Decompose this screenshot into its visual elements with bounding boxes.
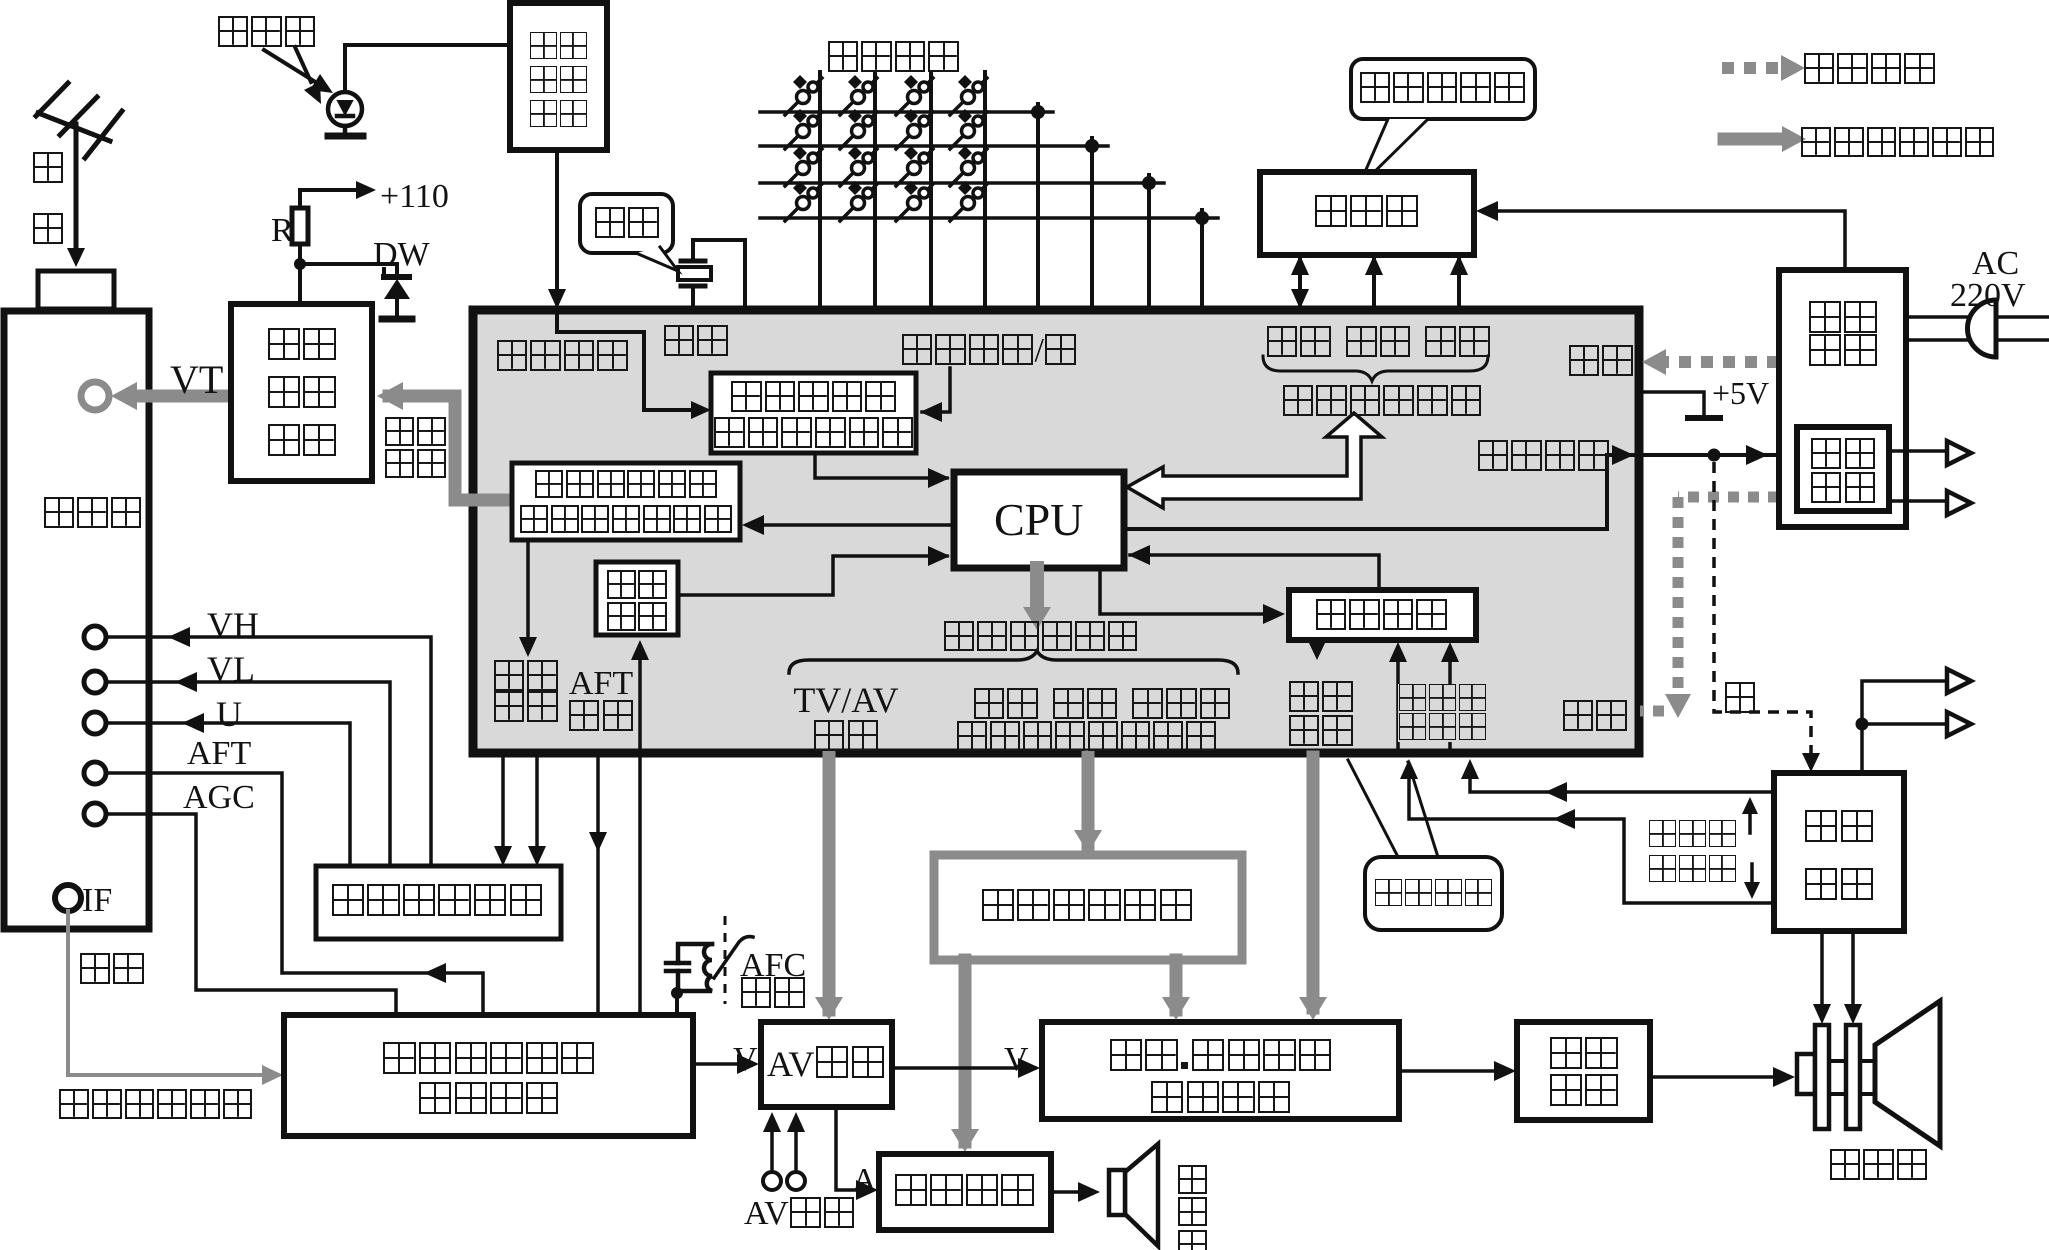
wire keypad label into decode box bbox=[922, 368, 950, 412]
label AV interface bbox=[767, 1046, 886, 1082]
wire video out V bbox=[693, 1062, 752, 1066]
keypad row wire 3 bbox=[760, 181, 1164, 185]
arrow into speaker bbox=[1078, 1182, 1100, 1202]
sync signal box bbox=[596, 562, 678, 635]
label +5V bbox=[1712, 377, 1769, 409]
wire AFT return bbox=[106, 773, 483, 1015]
arrow into AV interface bbox=[737, 1054, 759, 1074]
node dot R/DW bbox=[294, 258, 306, 270]
arrow into tuning output box bbox=[742, 515, 764, 535]
arrow band line 2 bbox=[528, 846, 546, 866]
arrow on VH wire bbox=[168, 627, 190, 647]
label output control commands bbox=[943, 621, 1139, 654]
char signal gray line bbox=[1307, 757, 1320, 1008]
VT gray wire bbox=[132, 390, 231, 403]
VT gray terminal circle bbox=[81, 382, 109, 410]
label tuning output box bbox=[512, 470, 740, 540]
scan box top wire 2 bbox=[1862, 722, 1946, 726]
arrow down into U1 bbox=[1291, 289, 1309, 309]
display circuit box bbox=[1517, 1022, 1650, 1120]
arrow deflection 2 bbox=[1844, 1004, 1862, 1024]
line/field scan box bbox=[1774, 773, 1904, 931]
IF gray arrowhead bbox=[262, 1065, 283, 1085]
tuner terminal IF bbox=[55, 885, 81, 911]
label microprocessor callout bbox=[1365, 879, 1502, 909]
wire V pulse into char position bbox=[1396, 648, 1400, 748]
wire audio to speaker bbox=[1051, 1190, 1094, 1194]
gray line control IF to chroma bbox=[1170, 960, 1183, 1010]
arrow into char position box bbox=[1263, 604, 1285, 624]
wire band switch arrow bbox=[526, 540, 530, 651]
microprocessor callout bubble bbox=[1348, 760, 1502, 930]
label reset bbox=[1561, 700, 1628, 734]
label speaker bbox=[1178, 1161, 1207, 1250]
legend solid gray arrow bbox=[1724, 133, 1782, 146]
tuner terminal U bbox=[84, 712, 106, 734]
tuner terminal VL bbox=[84, 671, 106, 693]
V pulse wire from scan bbox=[1470, 766, 1774, 792]
tuner interface circuit box bbox=[231, 304, 372, 481]
open arrow out 2 bbox=[1947, 491, 1971, 515]
infrared arrows bbox=[264, 47, 333, 104]
arrow H pulse bbox=[1441, 642, 1459, 662]
arrow into display circuit bbox=[1494, 1061, 1516, 1081]
wire chip select bbox=[1372, 260, 1376, 309]
AV input terminal 2 bbox=[787, 1172, 805, 1190]
arrow char signal down bbox=[1308, 641, 1326, 660]
wire AV to chroma V bbox=[892, 1066, 1035, 1070]
gray line to control interface bbox=[1082, 757, 1095, 844]
arrow dashed into scan box bbox=[1802, 753, 1820, 772]
wire H pulse into char position bbox=[1448, 648, 1452, 748]
arrow into audio out box bbox=[856, 1180, 878, 1200]
label data chipselect clock bbox=[1265, 326, 1491, 360]
AFC wire to video IF bbox=[675, 993, 679, 1015]
band select switch box bbox=[316, 866, 561, 939]
label control interface box bbox=[980, 889, 1194, 925]
keypad switch r4c3 bbox=[896, 181, 933, 221]
wire remote input to key/remote decode box bbox=[557, 316, 703, 410]
keypad row wire 1 bbox=[760, 110, 1053, 114]
arrow deflection 1 bbox=[1813, 1004, 1831, 1024]
wire chroma to display circuit bbox=[1399, 1069, 1510, 1073]
label +110 bbox=[380, 180, 449, 214]
arrow H pulse left bbox=[1553, 809, 1575, 829]
H pulse wire from scan bbox=[1409, 766, 1774, 903]
wire char signal arrow bbox=[1315, 640, 1319, 652]
arrowhead H indicator bbox=[1744, 882, 1760, 899]
label V mid bbox=[1004, 1043, 1029, 1077]
arrow band switch label bbox=[519, 637, 537, 657]
supply +5V dotted gray wire bbox=[1660, 356, 1779, 368]
AFC coil bbox=[677, 944, 712, 991]
arrow H pulse up into U1 bbox=[1400, 759, 1418, 779]
legend dotted arrowhead bbox=[1781, 55, 1805, 81]
label 220V bbox=[1950, 279, 2026, 313]
fat white arrow CPU to data access control bbox=[1127, 413, 1382, 508]
tuning/band output box bbox=[512, 463, 740, 540]
AC input wires bbox=[1906, 317, 2049, 340]
label or bbox=[1723, 682, 1757, 716]
keypad switch r4c1 bbox=[785, 181, 822, 221]
keypad switch r1c4 bbox=[950, 75, 987, 115]
standby output wire 1 bbox=[1889, 449, 1946, 453]
wire U1 ground stub bbox=[1639, 392, 1704, 416]
wire audio A bbox=[836, 1107, 872, 1190]
arrow antenna to feed box bbox=[67, 248, 85, 267]
open arrow scan out 2 bbox=[1947, 712, 1971, 736]
arrow V pulse bbox=[1389, 642, 1407, 662]
arrow into CRT bbox=[1773, 1067, 1795, 1087]
keypad column wire 1 bbox=[818, 72, 822, 309]
ground under DW bbox=[382, 316, 412, 323]
label display circuit bbox=[1517, 1037, 1650, 1111]
open arrow out 1 bbox=[1947, 441, 1971, 465]
dashed or-wire to scan bbox=[1714, 462, 1811, 764]
label memory bbox=[1313, 195, 1420, 231]
label AV input bbox=[744, 1197, 856, 1231]
CPU box bbox=[954, 472, 1124, 568]
arrow into CPU left lower bbox=[928, 546, 950, 566]
arrow on AFT wire bbox=[424, 963, 446, 983]
keypad column wire 2 bbox=[873, 72, 877, 309]
arrow AV input 2 bbox=[787, 1112, 805, 1132]
wire decode box to CPU bbox=[815, 453, 947, 478]
crystal X1 bbox=[678, 240, 745, 309]
remote signal receiver box bbox=[510, 3, 607, 150]
wire +110 bbox=[300, 190, 358, 208]
wire AV input 1 bbox=[770, 1119, 774, 1171]
label TV/AV control bbox=[789, 682, 903, 756]
wire data bidirectional bbox=[1298, 260, 1302, 304]
keypad switch r2c1 bbox=[785, 109, 822, 149]
AV interface box bbox=[761, 1022, 892, 1107]
wire sync to CPU bbox=[678, 556, 947, 595]
label band select switch bbox=[330, 884, 544, 920]
keypad switch r3c3 bbox=[896, 146, 933, 186]
arrow V pulse up into U1 bbox=[1461, 759, 1479, 779]
zener diode DW bbox=[384, 269, 410, 317]
antenna symbol bbox=[36, 83, 122, 251]
label crystal callout bbox=[593, 207, 660, 241]
wire VH bbox=[106, 637, 431, 866]
label operation circuit bbox=[826, 41, 961, 75]
label remote receive pin bbox=[495, 340, 630, 374]
wire CPU to char position bbox=[1100, 568, 1277, 614]
band line 2 bbox=[535, 757, 539, 858]
gray arrowhead into audio out bbox=[951, 1129, 979, 1152]
label phase shift bbox=[739, 977, 806, 1011]
tuner terminal AFT bbox=[84, 762, 106, 784]
arrow into CPU right bbox=[1128, 545, 1150, 565]
tuner terminal AGC bbox=[84, 803, 106, 825]
label power control bbox=[1476, 440, 1611, 474]
keypad sense wire 3 bbox=[1147, 175, 1151, 309]
keypad column wire 3 bbox=[929, 72, 933, 309]
wire U bbox=[106, 723, 350, 866]
label R bbox=[271, 214, 294, 248]
label tuner interface bbox=[231, 328, 372, 472]
audio output box bbox=[879, 1154, 1051, 1230]
keypad switch r1c3 bbox=[896, 75, 933, 115]
gray arrowhead into AV interface bbox=[815, 997, 843, 1020]
arrow AV input 1 bbox=[763, 1112, 781, 1132]
arrow clock bbox=[1450, 255, 1468, 275]
label DW bbox=[373, 238, 430, 272]
arrow into CPU left upper bbox=[928, 468, 950, 488]
keypad switch r3c1 bbox=[785, 146, 822, 186]
label data access control bbox=[1281, 385, 1483, 419]
label U bbox=[216, 696, 242, 732]
label supply bbox=[1567, 345, 1634, 379]
junction dot row2 bbox=[1085, 139, 1099, 153]
label AFT defeat bbox=[562, 668, 640, 732]
wire R to node bbox=[298, 244, 302, 304]
scan box top wire 1 bbox=[1862, 681, 1946, 773]
keypad switch r1c1 bbox=[785, 75, 822, 115]
wire CPU to tuning output box bbox=[748, 523, 954, 527]
wire AGC bbox=[106, 814, 396, 1015]
label IF bbox=[82, 884, 112, 918]
label V left bbox=[733, 1043, 758, 1077]
brace under output commands bbox=[789, 651, 1238, 673]
wire node to DW bbox=[300, 264, 397, 275]
label working condition bbox=[1802, 53, 1937, 87]
label key in/out bbox=[900, 334, 1078, 368]
keypad sense wire 1 bbox=[1036, 104, 1040, 309]
label decode box bbox=[711, 381, 916, 453]
legend gray arrowhead bbox=[1782, 126, 1806, 152]
label chroma box bbox=[1042, 1039, 1399, 1123]
label scan box bbox=[1774, 810, 1904, 926]
label AFT bbox=[187, 737, 251, 771]
label IF freq bbox=[78, 953, 145, 987]
V pulse indicator arrow bbox=[1748, 807, 1752, 833]
open arrow scan out 1 bbox=[1947, 669, 1971, 693]
label brightness volume chroma control bbox=[956, 721, 1217, 754]
microcontroller gray block U1 bbox=[473, 310, 1639, 753]
label CPU bbox=[994, 497, 1083, 543]
wire power control bbox=[1124, 455, 1795, 529]
speaker LS bbox=[1109, 1144, 1158, 1246]
keypad column wire 4 bbox=[983, 72, 987, 309]
gray arrowhead into tuner interface bbox=[377, 382, 403, 410]
wire power to memory bbox=[1482, 211, 1845, 271]
gray arrowhead char signal bbox=[1299, 997, 1327, 1020]
label mute still contrast bbox=[972, 688, 1232, 722]
label standby bbox=[1797, 438, 1889, 506]
reset dotted gray wire bbox=[1640, 497, 1779, 711]
arrow into sync box bbox=[631, 640, 649, 660]
video IF processing box bbox=[284, 1015, 693, 1136]
label A bbox=[852, 1164, 877, 1198]
arrowhead V indicator bbox=[1742, 797, 1758, 814]
arrow on U wire bbox=[182, 713, 204, 733]
keypad sense wire 4 bbox=[1200, 210, 1204, 309]
chroma/luma processing box bbox=[1042, 1022, 1399, 1119]
gray line control IF to audio bbox=[959, 960, 972, 1142]
keypad switch r4c2 bbox=[840, 181, 877, 221]
regulated power supply box bbox=[1779, 270, 1906, 527]
label regulated supply bbox=[1779, 301, 1906, 367]
tuner terminal VH bbox=[84, 626, 106, 648]
arrow into decode box bbox=[691, 401, 711, 419]
wire VL bbox=[106, 682, 390, 866]
wire clock bbox=[1457, 260, 1461, 309]
H pulse indicator arrow bbox=[1750, 864, 1754, 890]
keypad switch r3c4 bbox=[950, 146, 987, 186]
tuning voltage gray wire bbox=[389, 396, 512, 500]
ground under photodiode bbox=[328, 133, 363, 140]
standby control box bbox=[1797, 427, 1889, 511]
arrow to +110 bbox=[356, 181, 376, 199]
key/remote decode box bbox=[711, 373, 916, 453]
deflection wire 2 bbox=[1851, 931, 1855, 1018]
keypad switch r2c3 bbox=[896, 109, 933, 149]
AFT defeat line to video IF bbox=[596, 757, 600, 1015]
IF gray wire bbox=[68, 911, 272, 1075]
arrow chip select bbox=[1365, 255, 1383, 275]
memory box bbox=[1260, 172, 1474, 255]
label crystal osc bbox=[662, 325, 729, 359]
arrow AFT defeat bbox=[589, 832, 607, 852]
band select lines from U1 bbox=[501, 757, 505, 858]
junction dot row3 bbox=[1142, 176, 1156, 190]
wire AV input 2 bbox=[794, 1119, 798, 1171]
gray arrowhead supply into U1 bbox=[1642, 349, 1666, 375]
ground symbol right bbox=[1688, 415, 1720, 421]
arrow band line 1 bbox=[494, 846, 512, 866]
label VT bbox=[170, 360, 223, 400]
keypad switch r3c2 bbox=[840, 146, 877, 186]
gray arrowhead into control interface bbox=[1074, 830, 1102, 853]
antenna feed box bbox=[38, 271, 114, 309]
wire remote receiver down to U1 bbox=[555, 150, 559, 300]
crystal callout bubble bbox=[580, 194, 678, 271]
keypad switch r2c2 bbox=[840, 109, 877, 149]
arrow into decode box right bbox=[920, 402, 942, 422]
keypad row wire 4 bbox=[760, 216, 1218, 220]
sync line from video IF bbox=[638, 646, 642, 1015]
AFC switch arm bbox=[714, 937, 753, 978]
arrow on VL wire bbox=[175, 672, 197, 692]
label VL bbox=[207, 651, 255, 687]
label tuner bbox=[42, 497, 143, 531]
keypad row wire 2 bbox=[760, 144, 1108, 148]
label char position bbox=[1314, 599, 1449, 633]
arrow V pulse left bbox=[1545, 782, 1567, 802]
char position box bbox=[1289, 590, 1476, 640]
label memory callout bbox=[1358, 72, 1526, 106]
legend dotted working-condition arrow bbox=[1722, 62, 1778, 74]
gray arrowhead reset bbox=[1665, 694, 1691, 718]
AFC capacitor bbox=[666, 944, 712, 993]
arrow up into memory bbox=[1291, 255, 1309, 275]
label remote signal receive bbox=[510, 32, 607, 134]
label pulses inside bbox=[1398, 684, 1487, 742]
wire display to CRT bbox=[1650, 1075, 1789, 1079]
memory callout bubble bbox=[1351, 59, 1535, 188]
AV input terminal 1 bbox=[763, 1172, 781, 1190]
junction dot row4 bbox=[1195, 211, 1209, 225]
arrow power control at border bbox=[1612, 445, 1634, 465]
arrow into chroma bbox=[1018, 1058, 1040, 1078]
label band switch pin bbox=[492, 660, 559, 722]
standby output wire 2 bbox=[1889, 499, 1946, 503]
AFC junction dot bbox=[671, 987, 683, 999]
brace over data-access label bbox=[1263, 356, 1488, 381]
keypad switch r2c4 bbox=[950, 109, 987, 149]
label AFC bbox=[740, 949, 806, 983]
label sync box bbox=[596, 570, 678, 634]
label VH bbox=[207, 607, 259, 643]
CRT picture tube bbox=[1797, 1001, 1940, 1146]
gray arrowhead output commands bbox=[1023, 607, 1051, 630]
arrow power control to standby bbox=[1746, 445, 1768, 465]
label CRT bbox=[1828, 1149, 1929, 1183]
label AGC bbox=[183, 781, 255, 815]
label video IF box bbox=[284, 1042, 693, 1122]
VT gray arrowhead bbox=[111, 382, 137, 410]
photodiode D1 bbox=[328, 45, 510, 133]
keypad switch r1c2 bbox=[840, 75, 877, 115]
keypad sense wire 2 bbox=[1090, 138, 1094, 309]
deflection wire 1 bbox=[1820, 931, 1824, 1018]
label audio out box bbox=[893, 1174, 1035, 1210]
tuner box bbox=[4, 311, 149, 929]
AFC dashed line bbox=[724, 916, 727, 1004]
junction dot row1 bbox=[1031, 105, 1045, 119]
label video IF signal in bbox=[58, 1089, 254, 1122]
resistor R bbox=[292, 208, 308, 244]
junction dot scan out bbox=[1856, 718, 1869, 731]
wire char position to CPU bbox=[1130, 555, 1379, 590]
label char signal bbox=[1287, 681, 1354, 749]
label tuning voltage bbox=[384, 417, 447, 481]
control interface box gray border bbox=[934, 855, 1242, 960]
arrow into memory right bbox=[1476, 201, 1498, 221]
TV/AV gray control line bbox=[823, 757, 836, 1010]
CPU gray output arrow bbox=[1030, 568, 1044, 610]
AC plug symbol bbox=[1967, 300, 1996, 357]
junction dot power control bbox=[1708, 449, 1721, 462]
label antenna bbox=[31, 152, 65, 186]
gray arrowhead into chroma box bbox=[1162, 997, 1190, 1020]
label infrared bbox=[216, 16, 317, 50]
label AC bbox=[1972, 247, 2019, 281]
arrow into U1 remote input bbox=[548, 289, 566, 309]
label pulses outside bbox=[1648, 820, 1737, 890]
keypad switch r4c4 bbox=[950, 181, 987, 221]
label output control signal bbox=[1800, 127, 1996, 160]
